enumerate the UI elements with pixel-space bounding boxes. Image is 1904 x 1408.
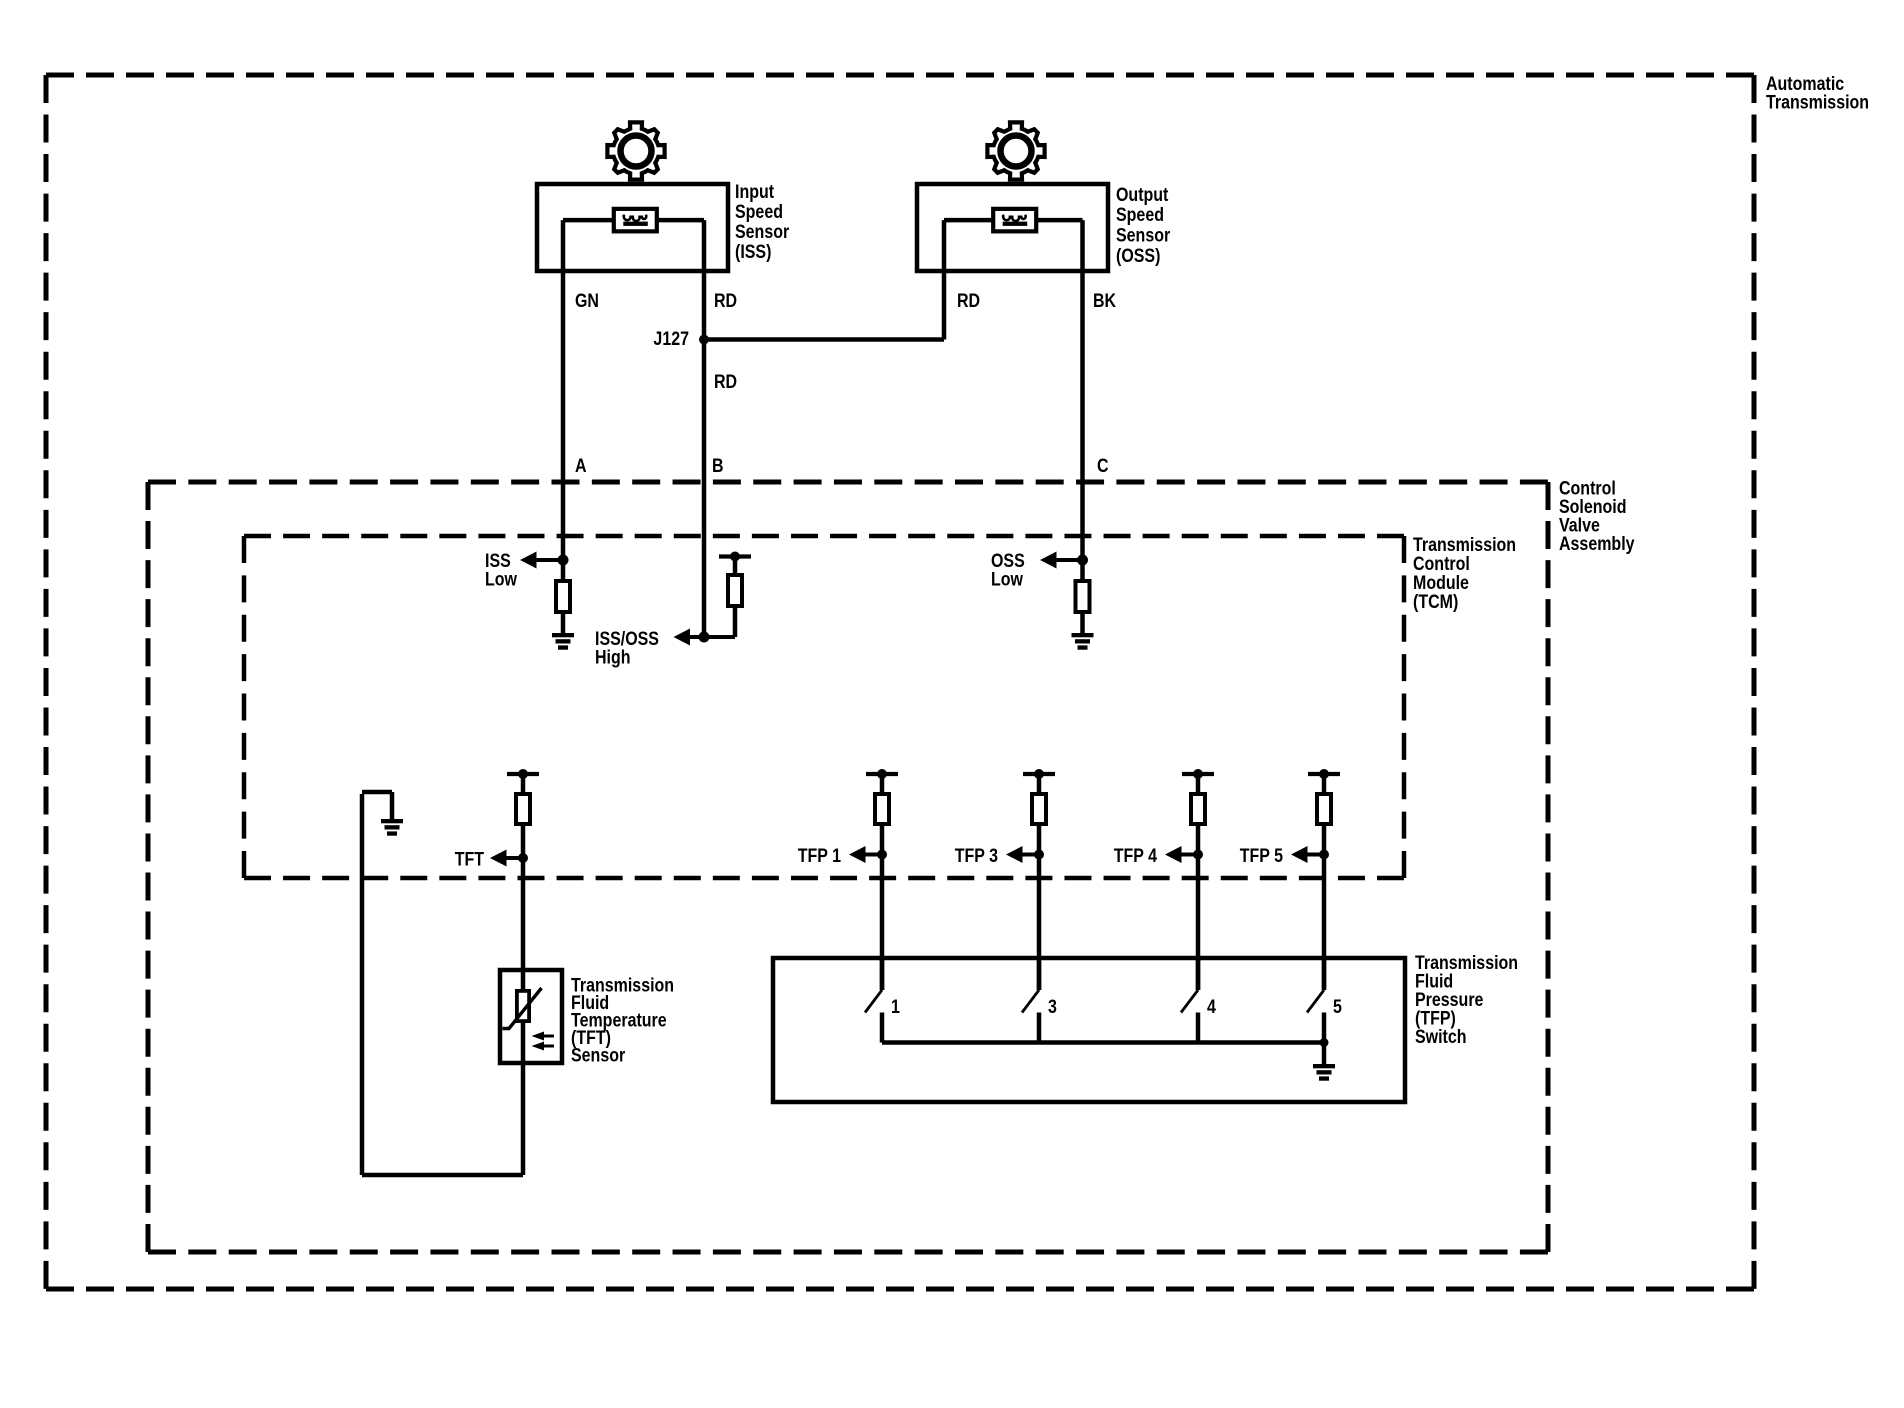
wire rail to TFP 1 resistor	[880, 774, 885, 792]
wire C (BK) from OSS to TCM	[1080, 220, 1085, 579]
svg-text:3: 3	[1048, 996, 1057, 1018]
label: Output Speed Sensor (OSS)	[1116, 183, 1170, 266]
wire TFT return bottom segment	[362, 1173, 523, 1178]
arrow TFP 4 input	[1165, 846, 1198, 863]
label: ISS/OSS High	[595, 628, 659, 668]
label: OSS Low	[991, 550, 1025, 590]
svg-text:BK: BK	[1093, 290, 1116, 312]
switch 5 (TFP)	[1307, 958, 1324, 1043]
wire resistor to ground	[561, 614, 566, 633]
svg-text:TFP 4: TFP 4	[1114, 845, 1157, 867]
node TFP 4 junction	[1193, 850, 1203, 860]
svg-text:Speed: Speed	[1116, 204, 1164, 226]
resistor (TFP 4 pull-up)	[1191, 794, 1205, 824]
wire TFP 3 to TFP switch	[1037, 826, 1042, 990]
svg-text:RD: RD	[714, 290, 737, 312]
wire TFP 4 to TFP switch	[1196, 826, 1201, 990]
Transmission Control Module boundary (dashed box)	[244, 536, 1404, 878]
wire J127 splice link	[704, 337, 944, 342]
wire resistor to ISS/OSS High node	[733, 608, 738, 637]
wire: TFT sensor return loop to ground	[362, 792, 392, 1175]
arrow TFP 3 input	[1006, 846, 1039, 863]
gear icon (ISS)	[607, 122, 664, 179]
junction J127	[699, 335, 709, 345]
svg-text:RD: RD	[714, 371, 737, 393]
svg-text:TFP 3: TFP 3	[955, 845, 998, 867]
label: Transmission Fluid Temperature (TFT) Sensor	[571, 974, 674, 1066]
svg-text:TFP 1: TFP 1	[798, 845, 841, 867]
svg-text:B: B	[712, 455, 724, 477]
node TFT junction	[518, 853, 528, 863]
Control Solenoid Valve Assembly boundary (dashed box)	[148, 482, 1548, 1252]
svg-text:Sensor: Sensor	[1116, 224, 1170, 246]
svg-text:(TCM): (TCM)	[1413, 591, 1458, 613]
switch 3 (TFP)	[1022, 958, 1039, 1043]
Output Speed Sensor (OSS) box	[917, 184, 1108, 271]
ground (OSS Low)	[1072, 633, 1094, 650]
svg-text:Sensor: Sensor	[571, 1044, 625, 1066]
arrow ISS/OSS High input	[674, 629, 705, 646]
Transmission Fluid Pressure (TFP) Switch box	[773, 958, 1405, 1102]
label: Transmission Control Module (TCM)	[1413, 534, 1516, 613]
wire TFT resistor to TFT sensor	[521, 826, 526, 970]
wire TFT sensor bottom lead	[521, 1063, 526, 1175]
arrow OSS Low input	[1040, 552, 1083, 569]
wire rail to TFP 3 resistor	[1037, 774, 1042, 792]
wire RD from OSS down to J127 link	[942, 220, 947, 339]
gear icon (OSS)	[987, 122, 1044, 179]
svg-text:(OSS): (OSS)	[1116, 245, 1160, 267]
resistor (TFP 5 pull-up)	[1317, 794, 1331, 824]
label: Control Solenoid Valve Assembly	[1559, 477, 1635, 554]
svg-text:Output: Output	[1116, 183, 1168, 205]
wire: ISS connector leads	[563, 218, 704, 223]
wire resistor to ground	[1080, 614, 1085, 633]
svg-text:(ISS): (ISS)	[735, 241, 771, 263]
wire: OSS connector leads	[944, 218, 1083, 223]
wire rail to resistor	[733, 557, 738, 574]
svg-text:Transmission: Transmission	[1766, 91, 1869, 113]
svg-text:J127: J127	[653, 328, 689, 350]
Input Speed Sensor (ISS) box	[537, 184, 728, 271]
voltage rail tap (TFP 5)	[1308, 769, 1340, 779]
variable-influence arrows (TFT)	[532, 1032, 555, 1051]
svg-text:RD: RD	[957, 290, 980, 312]
svg-text:High: High	[595, 646, 631, 668]
arrow TFP 1 input	[849, 846, 882, 863]
voltage rail tap (TFP 1)	[866, 769, 898, 779]
label: ISS Low	[485, 550, 517, 590]
thermistor symbol (TFT)	[503, 988, 542, 1029]
wire through TFT sensor	[521, 970, 526, 1063]
wire ISS/OSS High horizontal	[689, 635, 735, 639]
svg-text:Sensor: Sensor	[735, 221, 789, 243]
label: Transmission Fluid Pressure (TFP) Switch	[1415, 951, 1518, 1047]
svg-text:1: 1	[891, 996, 900, 1018]
ISS connector symbol	[614, 209, 657, 232]
wire rail to TFP 4 resistor	[1196, 774, 1201, 792]
wire rail to TFP 5 resistor	[1322, 774, 1327, 792]
OSS connector symbol	[993, 209, 1036, 232]
resistor (TFT pull-up)	[516, 794, 530, 824]
svg-text:TFT: TFT	[455, 848, 484, 870]
svg-text:C: C	[1097, 455, 1109, 477]
svg-text:GN: GN	[575, 290, 599, 312]
Automatic Transmission boundary (dashed box)	[46, 75, 1754, 1289]
svg-text:Low: Low	[485, 568, 517, 590]
resistor (ISS/OSS High pull-up)	[728, 575, 742, 606]
wire rail to TFT resistor	[521, 774, 526, 792]
node TFP common junction	[1320, 1038, 1329, 1047]
arrow ISS Low input	[520, 552, 563, 569]
node TFP 3 junction	[1034, 850, 1044, 860]
svg-text:Low: Low	[991, 568, 1023, 590]
Transmission Fluid Temperature (TFT) Sensor box	[500, 970, 562, 1063]
ground (TFP switch)	[1313, 1064, 1335, 1081]
wire TFP 5 to TFP switch	[1322, 826, 1327, 990]
arrow TFP 5 input	[1291, 846, 1324, 863]
svg-text:4: 4	[1207, 996, 1216, 1018]
voltage rail tap (TFP 4)	[1182, 769, 1214, 779]
svg-text:TFP 5: TFP 5	[1240, 845, 1283, 867]
svg-text:A: A	[575, 455, 587, 477]
wire B (RD) from ISS through J127	[702, 220, 707, 637]
resistor (OSS Low bias)	[1076, 581, 1090, 612]
wire TFP common to ground	[1322, 1043, 1327, 1065]
label: Automatic Transmission	[1766, 73, 1869, 113]
switch 1 (TFP)	[865, 958, 882, 1043]
wire TFP common bus	[882, 1040, 1324, 1045]
wire A (GN) from ISS to TCM	[561, 220, 566, 579]
svg-text:Speed: Speed	[735, 201, 783, 223]
resistor (TFP 3 pull-up)	[1032, 794, 1046, 824]
label: Input Speed Sensor (ISS)	[735, 181, 789, 263]
node ISS/OSS High junction	[699, 632, 710, 643]
svg-text:Assembly: Assembly	[1559, 532, 1635, 554]
voltage rail tap (TFP 3)	[1023, 769, 1055, 779]
arrow TFT input	[490, 850, 523, 867]
resistor (TFP 1 pull-up)	[875, 794, 889, 824]
switch 4 (TFP)	[1181, 958, 1198, 1043]
wire TFP 1 to TFP switch	[880, 826, 885, 990]
voltage rail tap (TFT)	[507, 769, 539, 779]
voltage rail tap (ISS/OSS High)	[719, 552, 751, 562]
svg-text:Input: Input	[735, 181, 774, 203]
node OSS Low junction	[1077, 555, 1088, 566]
ground (TFT return)	[381, 819, 403, 836]
svg-text:5: 5	[1333, 996, 1342, 1018]
resistor (ISS Low bias)	[556, 581, 570, 612]
node ISS Low junction	[558, 555, 569, 566]
ground (ISS Low)	[552, 633, 574, 650]
svg-text:Switch: Switch	[1415, 1025, 1467, 1047]
node TFP 5 junction	[1319, 850, 1329, 860]
node TFP 1 junction	[877, 850, 887, 860]
